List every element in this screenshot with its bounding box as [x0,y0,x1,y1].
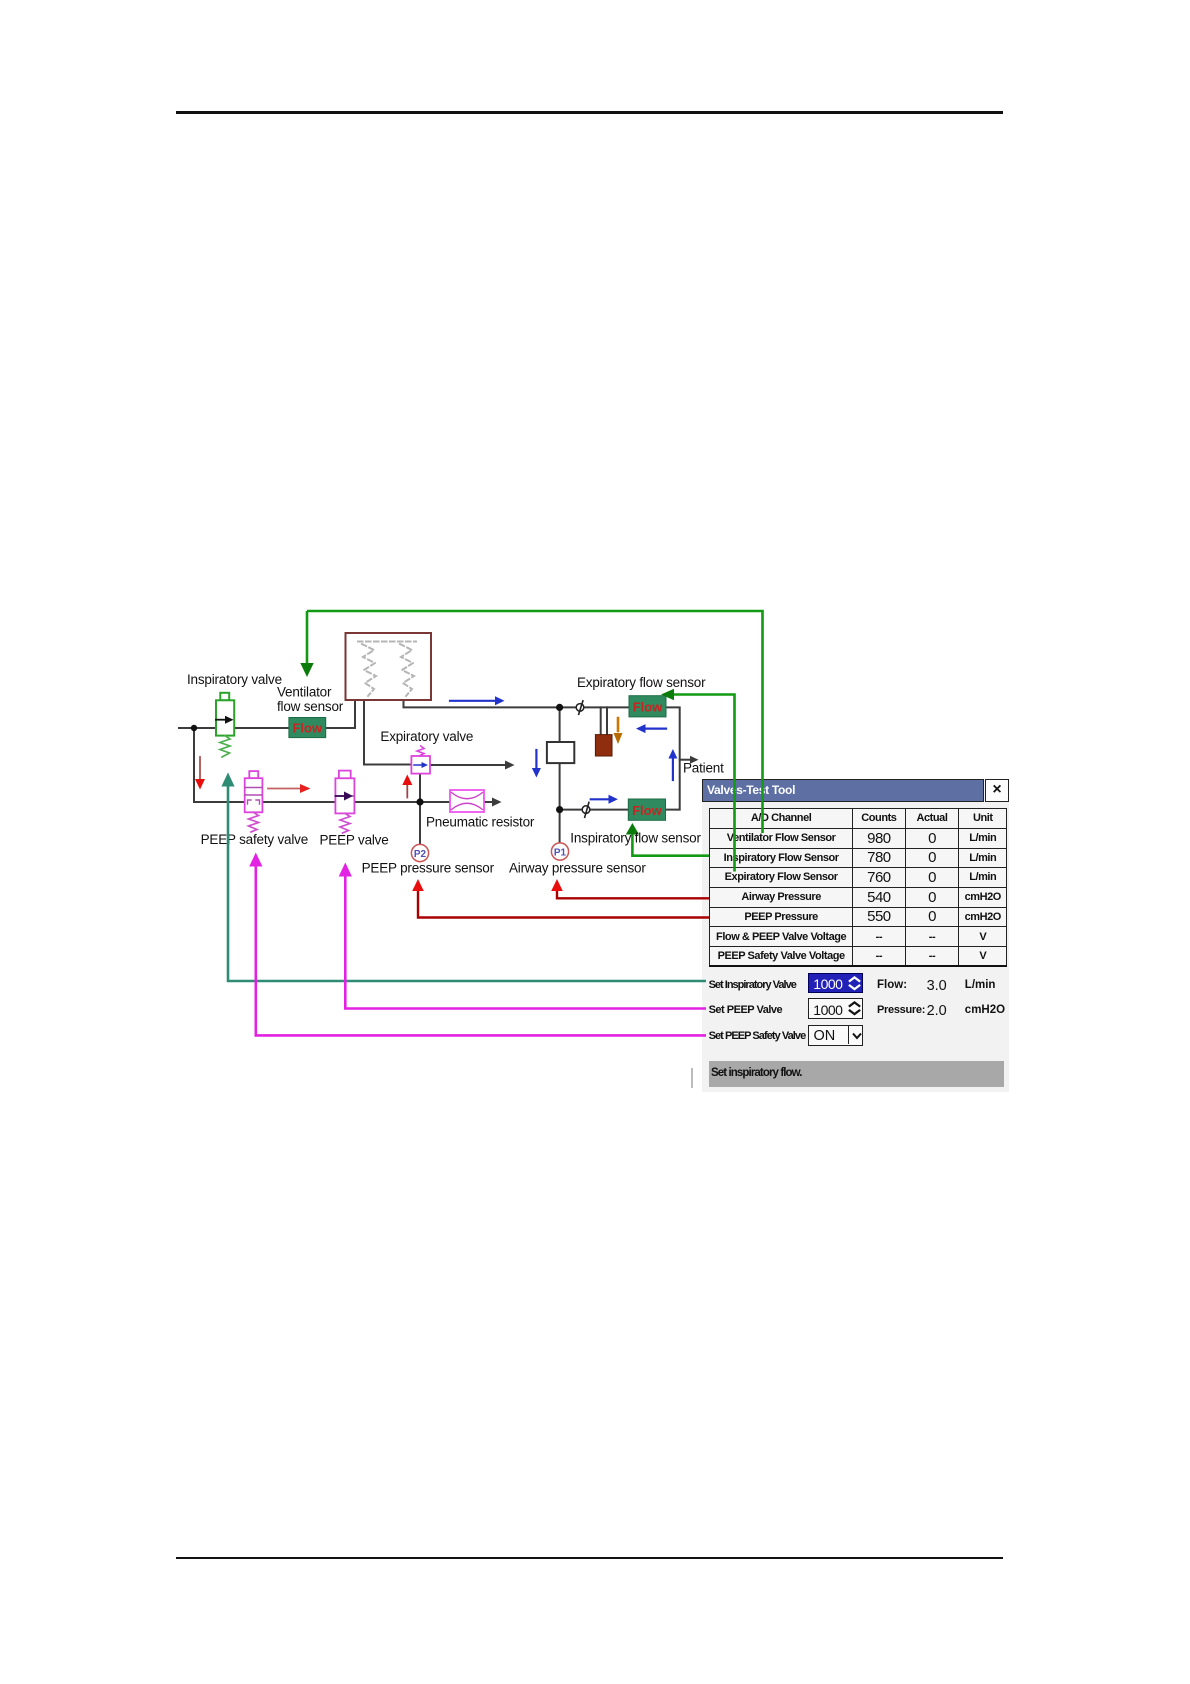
patient wye box [547,742,574,763]
svg-text:PEEP valve: PEEP valve [320,833,389,848]
wire: expiratory valve to P2 [419,774,421,844]
set PEEP safety valve row [709,1030,806,1042]
red arrow right (PEEP line) [268,788,300,790]
wire: inspiratory valve drop [193,728,195,802]
A/D table [709,808,1007,968]
bottom rule [176,1557,1003,1559]
P2 sensor [411,844,428,861]
svg-text:Patient: Patient [683,761,724,776]
dialog: Valves Test Tool [702,779,1009,1092]
svg-text:Airway pressure sensor: Airway pressure sensor [509,861,646,876]
inspiratory valve V1 [220,693,229,701]
check valve bottom [582,806,590,814]
status bar [709,1061,1004,1088]
brown muscle box [595,735,612,756]
green link: expiratory flow sensor to table [671,695,735,872]
inspiratory flow sensor box [628,799,665,820]
junction dots [191,725,197,731]
svg-text:P1: P1 [554,848,567,859]
blue arrow left [646,727,667,729]
dropdown ON [808,1025,863,1046]
wire: expiratory flow sensor loop to patient [666,707,680,809]
bellows box [346,633,432,700]
wire: resistor outlet arrow [484,801,492,803]
magenta link: PEEP safety valve [256,865,706,1035]
wire: brown box stems [601,707,607,734]
title bar [702,779,984,802]
orange dotted arrow [617,718,620,732]
status-bar side tick [691,1068,693,1088]
svg-text:PEEP safety valve: PEEP safety valve [201,832,308,847]
set inspiratory valve row [709,979,796,991]
svg-text:Flow: Flow [633,700,663,715]
PEEP valve [339,771,351,779]
wire: bellows to top manifold [404,700,630,707]
expiratory valve [417,746,424,756]
close button [985,779,1009,802]
svg-text:Flow: Flow [292,721,322,736]
inspiratory valve spring [220,736,230,757]
teal link: set inspiratory valve [228,786,706,982]
svg-text:PEEP pressure sensor: PEEP pressure sensor [362,861,495,876]
svg-text:flow sensor: flow sensor [277,699,344,714]
red link: airway pressure sensor [557,890,709,898]
wire: center column [559,707,561,809]
wire: to P1 [559,810,561,844]
svg-text:Flow: Flow [632,803,662,818]
svg-text:Expiratory valve: Expiratory valve [380,729,473,744]
expiratory flow sensor box [629,696,666,717]
wire: expiratory valve outlet arrow [430,764,506,766]
wire: patient branch arrow [680,759,690,761]
check valve top [576,704,584,712]
red arrow down (inlet) [199,757,201,779]
svg-text:P2: P2 [414,849,427,860]
wire: bellows to expiratory valve [364,700,411,765]
P1 sensor [551,843,568,860]
blue arrow up [672,759,674,781]
spinbox inspiratory (selected) [808,973,863,993]
green link: ventilator flow sensor to table [307,611,763,833]
blue arrow right bottom [591,798,609,800]
red arrow up (exp valve) [406,785,408,798]
PEEP safety valve [249,771,258,778]
svg-text:Expiratory flow sensor: Expiratory flow sensor [577,675,706,690]
pneumatic resistor [450,790,484,812]
wire: lower manifold [194,801,450,803]
blue arrow down-left [535,750,537,768]
svg-text:Ventilator: Ventilator [277,685,332,700]
ventilator flow sensor box [289,718,326,738]
top rule [176,111,1003,114]
svg-text:Inspiratory valve: Inspiratory valve [187,672,282,687]
magenta link: PEEP valve [345,875,706,1009]
svg-text:Pneumatic resistor: Pneumatic resistor [426,815,535,830]
blue arrow top [450,700,495,702]
wire: bottom manifold to inspiratory flow sensor [560,809,629,811]
wire: supply inlet to inspiratory valve [179,727,289,729]
green link: inspiratory flow sensor to table [632,834,709,856]
red link: PEEP pressure sensor [418,890,709,918]
wire: flow sensor to bellows riser [326,700,355,728]
set PEEP valve row [709,1004,783,1016]
